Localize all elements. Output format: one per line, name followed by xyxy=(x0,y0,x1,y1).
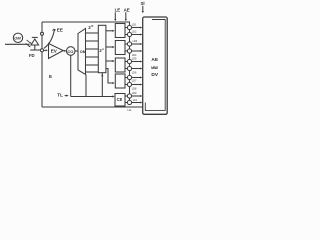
top rail wire xyxy=(42,22,130,25)
driver box 2 xyxy=(115,41,125,55)
LED D5 xyxy=(127,59,131,63)
svg-text:EE: EE xyxy=(57,27,63,32)
wire stubs xyxy=(125,28,127,103)
driver box 1 xyxy=(115,24,125,38)
switch contact node xyxy=(41,32,44,35)
svg-text:M5/2: M5/2 xyxy=(151,66,158,70)
LED D7 xyxy=(127,75,131,79)
display unit inner xyxy=(145,20,165,111)
svg-text:AE: AE xyxy=(124,7,130,12)
LED D10 xyxy=(127,100,131,104)
arrow xyxy=(65,95,67,97)
bottom rail wire xyxy=(42,106,143,108)
LED labels xyxy=(128,24,138,112)
display unit outer xyxy=(143,17,168,114)
wire xyxy=(75,50,78,52)
bus TL xyxy=(71,96,114,98)
LED D3 xyxy=(127,42,131,46)
wire trapezoid drop xyxy=(85,75,87,97)
label 2^n xyxy=(88,24,93,30)
LED D2 xyxy=(127,32,131,36)
svg-text:LD2: LD2 xyxy=(132,31,137,34)
LED D9 xyxy=(127,94,131,98)
svg-text:CO: CO xyxy=(67,49,73,54)
arrow xyxy=(114,12,116,19)
svg-text:n: n xyxy=(91,24,93,28)
svg-text:OM: OM xyxy=(14,36,21,41)
bus wires xyxy=(86,33,99,72)
svg-text:FD: FD xyxy=(29,53,35,58)
driver box 3 xyxy=(115,58,125,72)
arrow xyxy=(125,12,127,19)
LED D4 xyxy=(127,49,131,53)
wires LEDs to display xyxy=(132,28,142,103)
LED chain wire xyxy=(129,25,131,102)
comparator CO xyxy=(66,47,75,56)
svg-text:TL: TL xyxy=(57,92,63,97)
wire xyxy=(41,35,43,48)
wire xyxy=(5,43,30,45)
LED D8 xyxy=(127,82,131,86)
arrowheads xyxy=(140,27,142,104)
wire xyxy=(44,49,46,51)
arrow xyxy=(142,6,144,12)
wire xyxy=(41,22,43,32)
wire xyxy=(63,50,64,52)
svg-text:LD6: LD6 xyxy=(132,72,137,75)
svg-text:n: n xyxy=(102,47,104,51)
svg-text:L10: L10 xyxy=(133,99,138,102)
wire CO drop xyxy=(70,55,72,96)
svg-text:E: E xyxy=(49,74,52,79)
svg-text:LD9: LD9 xyxy=(132,92,137,95)
svg-text:LD8: LD8 xyxy=(132,88,137,91)
display DV text xyxy=(151,57,159,78)
lamp OM xyxy=(13,33,22,42)
wire register to driver 3 xyxy=(106,60,114,62)
photodiode FD xyxy=(29,37,41,58)
light arrows xyxy=(26,40,32,47)
svg-text:LD1: LD1 xyxy=(132,24,137,27)
svg-text:AE: AE xyxy=(151,57,158,63)
svg-text:LD5: LD5 xyxy=(132,58,137,61)
control box C8 xyxy=(115,94,125,107)
wire register to driver 4 xyxy=(106,69,114,84)
svg-text:DV: DV xyxy=(151,72,158,78)
wire xyxy=(41,52,43,107)
A/D converter OM trapezoid xyxy=(78,29,86,75)
op-amp EV xyxy=(49,44,64,59)
LED D1 xyxy=(127,25,131,29)
wire register to driver 1 xyxy=(106,30,114,32)
svg-text:L11: L11 xyxy=(128,109,133,112)
wire register to driver 2 xyxy=(106,46,114,48)
svg-text:C8: C8 xyxy=(117,97,123,102)
node xyxy=(40,49,43,52)
svg-text:LE: LE xyxy=(115,7,121,12)
wire register drop xyxy=(101,73,103,97)
svg-text:LD4: LD4 xyxy=(132,54,137,57)
svg-text:Sl: Sl xyxy=(141,1,145,6)
svg-text:LD7: LD7 xyxy=(132,80,137,83)
svg-text:EV: EV xyxy=(51,48,58,53)
svg-text:LD3: LD3 xyxy=(133,40,138,43)
driver box 4 xyxy=(115,74,125,88)
LED D6 xyxy=(127,66,131,70)
switch arm EE xyxy=(44,27,63,48)
svg-text:OM: OM xyxy=(80,50,86,54)
register 2^n xyxy=(98,25,106,72)
